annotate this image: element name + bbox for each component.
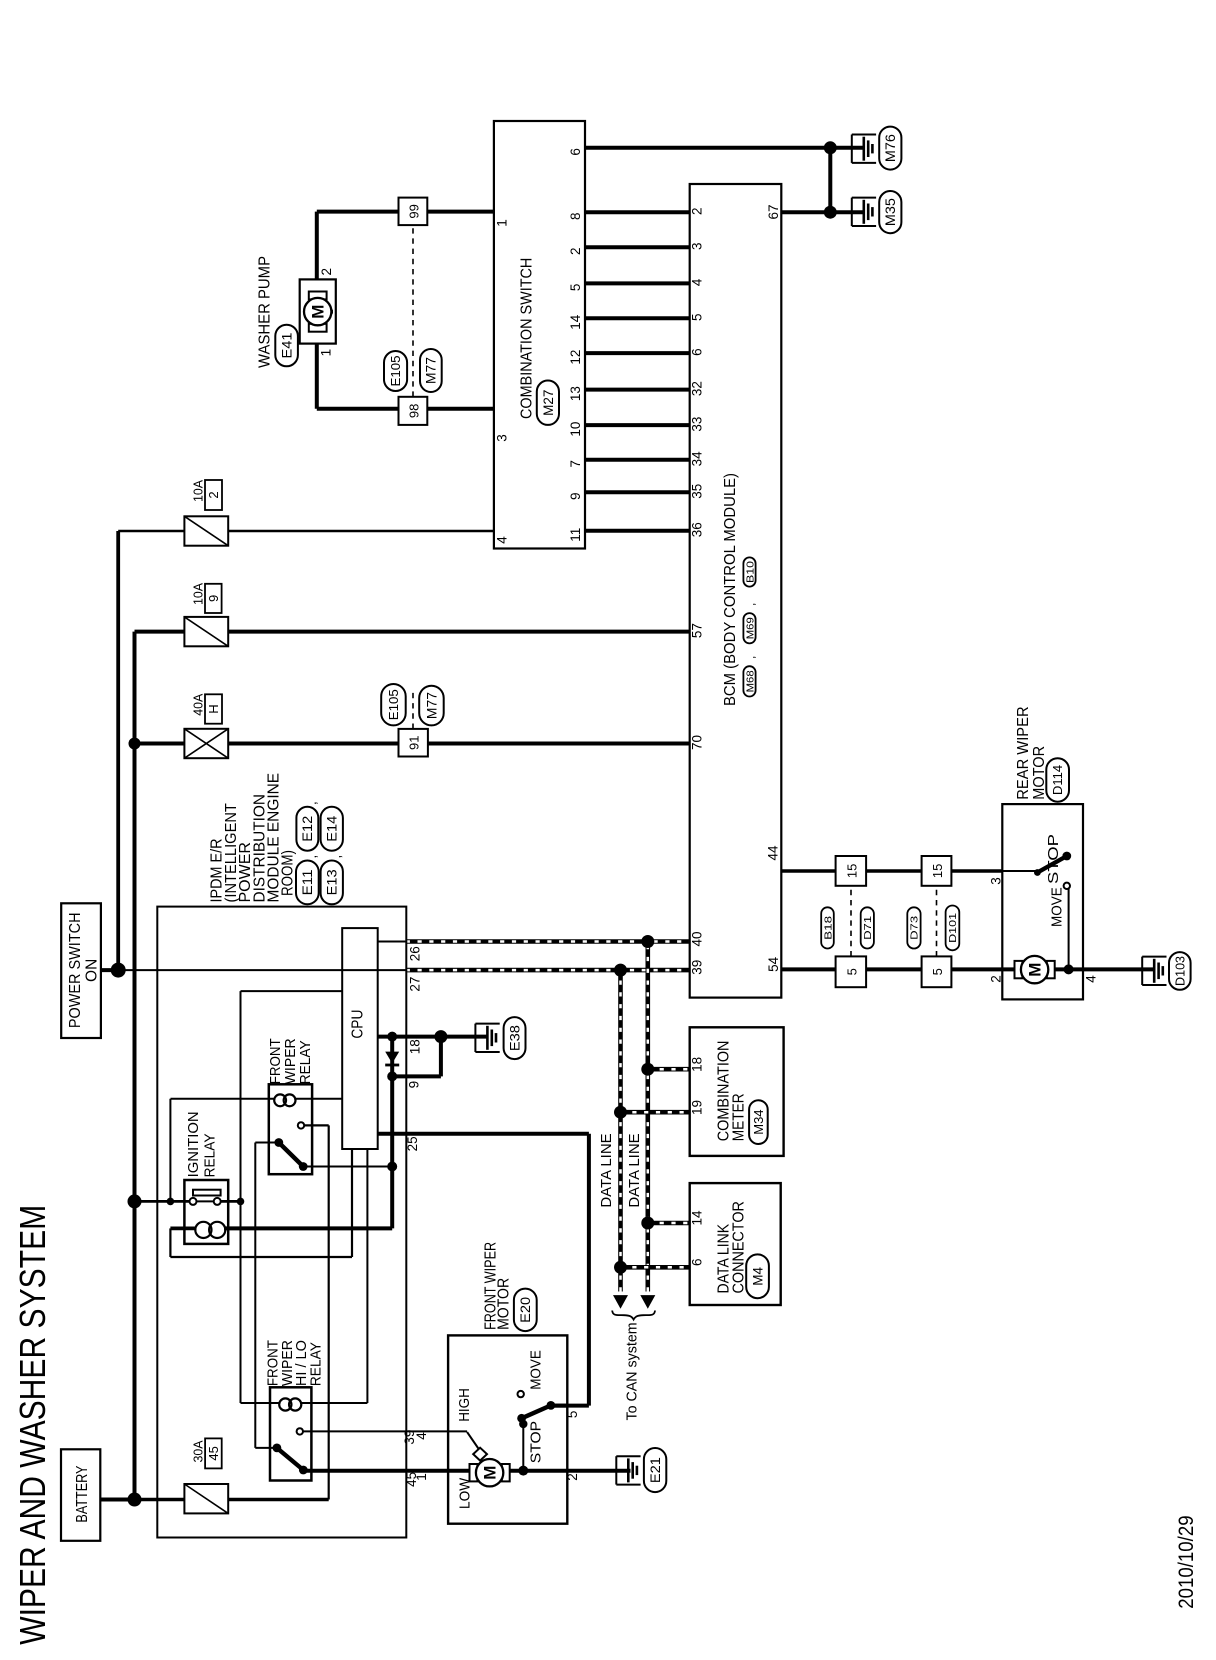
svg-text:2: 2 <box>206 491 221 498</box>
svg-text:10: 10 <box>568 422 583 437</box>
svg-text:D114: D114 <box>1051 765 1065 795</box>
svg-text:,: , <box>329 855 344 859</box>
svg-text:18: 18 <box>689 1057 704 1072</box>
svg-text:COMBINATION SWITCH: COMBINATION SWITCH <box>519 258 536 419</box>
svg-text:5: 5 <box>690 313 705 321</box>
svg-text:REAR WIPER: REAR WIPER <box>1015 706 1032 799</box>
svg-text:DATA LINE: DATA LINE <box>599 1133 615 1208</box>
svg-text:91: 91 <box>407 735 422 749</box>
svg-text:M: M <box>309 305 328 319</box>
svg-text:35: 35 <box>690 484 705 499</box>
svg-text:99: 99 <box>406 204 421 218</box>
svg-text:4: 4 <box>495 536 510 544</box>
svg-text:M27: M27 <box>541 390 556 416</box>
svg-text:9: 9 <box>206 595 221 602</box>
svg-text:D101: D101 <box>947 913 959 943</box>
svg-text:18: 18 <box>408 1039 423 1054</box>
svg-text:26: 26 <box>408 946 423 961</box>
svg-text:RELAY: RELAY <box>297 1040 314 1084</box>
svg-text:M68: M68 <box>744 670 756 692</box>
svg-text:14: 14 <box>568 314 583 330</box>
svg-text:E105: E105 <box>387 689 401 720</box>
svg-text:D103: D103 <box>1173 956 1187 986</box>
svg-text:E20: E20 <box>518 1297 533 1323</box>
svg-text:1: 1 <box>318 349 333 357</box>
svg-text:57: 57 <box>690 623 705 638</box>
svg-text:DATA LINE: DATA LINE <box>627 1133 643 1208</box>
svg-text:E41: E41 <box>279 333 294 359</box>
svg-text:1: 1 <box>495 219 510 227</box>
svg-text:M76: M76 <box>883 134 898 162</box>
svg-text:MOVE: MOVE <box>529 1350 545 1390</box>
svg-text:B18: B18 <box>822 916 834 940</box>
svg-text:5: 5 <box>844 968 859 975</box>
svg-text:12: 12 <box>568 350 583 365</box>
svg-text:E11: E11 <box>300 869 315 895</box>
svg-text:44: 44 <box>766 845 781 861</box>
svg-text:STOP: STOP <box>529 1421 545 1463</box>
svg-text:4: 4 <box>414 1432 429 1440</box>
svg-text:To CAN system: To CAN system <box>624 1322 641 1420</box>
svg-text:13: 13 <box>568 386 583 401</box>
svg-text:14: 14 <box>689 1210 704 1226</box>
svg-text:40A: 40A <box>191 693 206 715</box>
svg-text:M77: M77 <box>424 692 439 719</box>
svg-text:B10: B10 <box>744 561 756 583</box>
svg-text:,: , <box>304 801 319 805</box>
svg-text:BCM (BODY CONTROL MODULE): BCM (BODY CONTROL MODULE) <box>722 473 739 706</box>
svg-text:9: 9 <box>568 492 583 500</box>
svg-text:M34: M34 <box>751 1109 766 1134</box>
svg-text:2: 2 <box>319 268 334 276</box>
svg-text:ROOM): ROOM) <box>280 850 297 896</box>
svg-text:STOP: STOP <box>1046 834 1062 884</box>
svg-text:33: 33 <box>690 417 705 432</box>
svg-text:30A: 30A <box>191 1440 206 1462</box>
svg-text:2010/10/29: 2010/10/29 <box>1175 1515 1198 1608</box>
svg-text:MOVE: MOVE <box>1050 887 1066 927</box>
svg-text:4: 4 <box>690 278 705 286</box>
svg-text:POWER SWITCH: POWER SWITCH <box>67 912 84 1028</box>
svg-text:34: 34 <box>690 451 705 467</box>
svg-text:M4: M4 <box>750 1266 765 1285</box>
svg-text:RELAY: RELAY <box>308 1342 325 1386</box>
svg-text:7: 7 <box>568 460 583 468</box>
svg-text:2: 2 <box>989 975 1004 983</box>
svg-text:E105: E105 <box>389 355 403 386</box>
svg-text:WASHER PUMP: WASHER PUMP <box>257 256 274 368</box>
svg-text:70: 70 <box>690 735 705 750</box>
svg-text:2: 2 <box>690 207 705 215</box>
svg-text:METER: METER <box>731 1093 748 1141</box>
svg-text:6: 6 <box>690 348 705 356</box>
svg-text:CONNECTOR: CONNECTOR <box>731 1201 748 1293</box>
svg-text:3: 3 <box>690 242 705 250</box>
svg-text:2: 2 <box>565 1473 580 1481</box>
svg-text:39: 39 <box>690 960 705 975</box>
svg-text:10A: 10A <box>191 480 206 502</box>
svg-text:IGNITION: IGNITION <box>185 1111 202 1177</box>
svg-text:5: 5 <box>568 284 583 292</box>
svg-text:3: 3 <box>495 434 510 442</box>
svg-text:32: 32 <box>690 381 705 396</box>
svg-text:27: 27 <box>408 977 423 992</box>
svg-text:M69: M69 <box>744 617 756 639</box>
svg-text:98: 98 <box>406 404 421 418</box>
svg-text:CPU: CPU <box>349 1010 366 1039</box>
svg-text:,: , <box>744 603 758 606</box>
svg-text:M35: M35 <box>883 198 898 226</box>
svg-text:E14: E14 <box>325 815 340 842</box>
svg-text:9: 9 <box>406 1081 421 1089</box>
svg-text:1: 1 <box>414 1473 429 1481</box>
svg-text:D71: D71 <box>862 916 874 940</box>
svg-text:WIPER AND WASHER SYSTEM: WIPER AND WASHER SYSTEM <box>12 1205 53 1645</box>
svg-text:,: , <box>304 855 319 859</box>
svg-text:19: 19 <box>689 1100 704 1115</box>
svg-text:54: 54 <box>766 956 781 972</box>
svg-text:3: 3 <box>989 877 1004 885</box>
svg-text:M: M <box>481 1466 500 1480</box>
svg-text:M77: M77 <box>424 357 439 384</box>
svg-text:40: 40 <box>690 931 705 946</box>
svg-text:ON: ON <box>84 959 101 982</box>
svg-text:10A: 10A <box>191 583 206 605</box>
svg-text:67: 67 <box>766 204 781 219</box>
svg-text:E21: E21 <box>648 1457 663 1483</box>
svg-text:45: 45 <box>206 1446 221 1460</box>
svg-text:15: 15 <box>844 864 859 878</box>
svg-text:LOW: LOW <box>458 1478 474 1509</box>
svg-text:HIGH: HIGH <box>457 1388 473 1422</box>
svg-text:,: , <box>744 656 758 659</box>
svg-text:6: 6 <box>568 148 583 156</box>
svg-text:4: 4 <box>1084 975 1099 983</box>
svg-text:2: 2 <box>568 247 583 255</box>
svg-text:E12: E12 <box>300 816 315 842</box>
svg-text:36: 36 <box>690 522 705 537</box>
svg-text:D73: D73 <box>909 916 921 940</box>
svg-text:RELAY: RELAY <box>202 1133 219 1177</box>
svg-text:6: 6 <box>689 1258 704 1266</box>
svg-text:E38: E38 <box>507 1025 522 1051</box>
svg-text:E13: E13 <box>325 869 340 895</box>
svg-text:M: M <box>1026 963 1045 977</box>
svg-text:25: 25 <box>405 1136 420 1151</box>
svg-text:BATTERY: BATTERY <box>74 1466 91 1523</box>
svg-text:8: 8 <box>568 212 583 220</box>
svg-text:MOTOR: MOTOR <box>495 1278 512 1330</box>
svg-text:11: 11 <box>568 528 583 542</box>
svg-text:5: 5 <box>930 968 945 975</box>
svg-text:15: 15 <box>930 864 945 878</box>
svg-text:MOTOR: MOTOR <box>1031 746 1048 800</box>
svg-text:5: 5 <box>565 1411 580 1419</box>
svg-text:H: H <box>206 704 221 713</box>
